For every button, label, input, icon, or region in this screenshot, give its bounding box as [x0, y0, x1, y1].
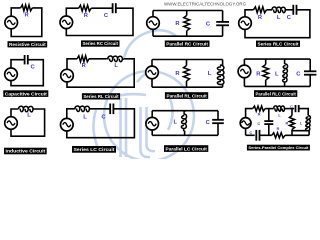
- label box Series LC Circuit: [72, 146, 116, 153]
- wire: [267, 9, 273, 11]
- AC source: [60, 16, 73, 29]
- wire: [11, 8, 20, 16]
- svg-text:Series-Parallel Complex Circui: Series-Parallel Complex Circuit: [248, 145, 309, 150]
- wire: [11, 60, 25, 68]
- bottom rail: [260, 134, 272, 136]
- svg-text:Series RC Circuit: Series RC Circuit: [82, 41, 118, 47]
- svg-text:Capacitive Circuit: Capacitive Circuit: [5, 91, 47, 97]
- AC source: [147, 17, 160, 30]
- wire: [66, 8, 133, 35]
- label box Inductive Circuit: [4, 148, 47, 155]
- AC source: [240, 118, 251, 129]
- bottom rail: [152, 86, 223, 88]
- wire: [66, 8, 78, 16]
- label box Resistive Circuit: [8, 41, 48, 47]
- wire: [308, 131, 310, 136]
- svg-text:WWW.ELECTRICALTECHNOLOGY.ORG: WWW.ELECTRICALTECHNOLOGY.ORG: [164, 1, 246, 7]
- wire: [89, 58, 106, 60]
- bottom rail: [244, 85, 310, 87]
- wire: [222, 11, 224, 22]
- wire: [151, 130, 153, 135]
- AC source: [61, 69, 74, 82]
- wire: [152, 11, 154, 17]
- wire: [90, 108, 110, 110]
- wire: [151, 111, 153, 118]
- wire: [265, 80, 267, 86]
- resistor R: [79, 5, 92, 11]
- label box Parallel RC Circuit: [165, 41, 210, 47]
- wire: [243, 78, 245, 87]
- wire: [222, 60, 224, 66]
- capacitor C4: [255, 130, 257, 141]
- wire: [151, 79, 153, 87]
- wire: [245, 10, 254, 17]
- inductor L1: [274, 106, 285, 111]
- inductor L2: [306, 116, 311, 131]
- svg-text:L: L: [114, 63, 118, 69]
- AC source: [61, 118, 74, 131]
- wire: [186, 31, 188, 36]
- wire: [285, 9, 293, 11]
- capacitor C: [24, 55, 26, 64]
- top rail: [152, 59, 223, 61]
- capacitor C3: [295, 105, 297, 112]
- inductor L: [19, 106, 33, 112]
- svg-text:C: C: [257, 121, 260, 126]
- wire: [67, 59, 134, 87]
- wire: [309, 59, 311, 71]
- svg-text:L: L: [275, 72, 279, 78]
- resistor R: [254, 7, 267, 13]
- svg-text:Resistive Circuit: Resistive Circuit: [9, 42, 46, 48]
- inductor L: [217, 65, 224, 85]
- label box Capacitive Circuit: [3, 90, 48, 97]
- capacitor C: [109, 104, 111, 115]
- capacitor C: [216, 21, 229, 23]
- resistor R: [263, 65, 269, 81]
- AC source: [239, 17, 252, 30]
- svg-text:L: L: [83, 114, 87, 120]
- svg-text:Parallel LC Circuit: Parallel LC Circuit: [166, 146, 208, 152]
- wire: [245, 128, 247, 135]
- wire: [11, 60, 43, 86]
- inductor L: [106, 56, 124, 62]
- wire: [268, 109, 270, 121]
- inductor L: [283, 64, 288, 82]
- svg-text:Inductive Circuit: Inductive Circuit: [6, 149, 46, 155]
- wire: [67, 59, 77, 70]
- wire: [292, 130, 309, 132]
- resistor R: [184, 66, 190, 82]
- label box Series RLC Circuit: [256, 41, 300, 47]
- svg-text:C: C: [290, 104, 293, 109]
- resistor R: [77, 56, 89, 62]
- wire: [299, 109, 309, 116]
- AC source: [5, 68, 18, 81]
- wire: [186, 60, 188, 66]
- svg-text:Parallel RC Circuit: Parallel RC Circuit: [166, 41, 208, 47]
- wire: [309, 75, 311, 87]
- svg-text:R: R: [277, 126, 280, 131]
- bottom rail: [246, 134, 255, 136]
- AC source: [238, 65, 251, 78]
- top rail: [244, 58, 310, 60]
- wire: [222, 85, 224, 88]
- wire: [268, 125, 270, 136]
- capacitor C: [304, 70, 316, 72]
- label box Series RL Circuit: [82, 93, 120, 99]
- svg-text:L: L: [208, 71, 212, 77]
- svg-text:C: C: [249, 130, 252, 135]
- wire: [11, 8, 42, 37]
- svg-text:Series RL Circuit: Series RL Circuit: [83, 94, 119, 100]
- capacitor C: [212, 119, 224, 121]
- wire: [186, 11, 188, 16]
- inductor L: [75, 106, 90, 112]
- resistor R: [21, 5, 33, 11]
- svg-text:Series RLC Circuit: Series RLC Circuit: [258, 41, 299, 47]
- capacitor C: [292, 5, 294, 15]
- AC source: [146, 117, 159, 130]
- bottom rail: [153, 35, 223, 37]
- wire: [184, 131, 186, 136]
- resistor R: [184, 16, 190, 31]
- svg-text:Parallel RL Circuit: Parallel RL Circuit: [166, 93, 207, 99]
- AC source: [146, 66, 159, 79]
- inductor L: [181, 112, 186, 130]
- wire: [291, 130, 293, 136]
- label box Parallel RL Circuit: [165, 92, 208, 99]
- wire: [217, 111, 219, 120]
- label box Parallel RLC Circuit: [254, 90, 297, 97]
- bottom rail: [285, 134, 309, 136]
- svg-text:L: L: [27, 113, 31, 119]
- wire: [285, 108, 295, 110]
- wire: [222, 25, 224, 36]
- wire: [67, 109, 75, 119]
- svg-text:Series LC Circuit: Series LC Circuit: [74, 147, 115, 153]
- wire: [246, 109, 253, 118]
- wire: [67, 109, 135, 138]
- label box Series RC Circuit: [81, 40, 120, 46]
- wire: [265, 59, 267, 64]
- wire: [91, 7, 112, 9]
- wire: [186, 81, 188, 87]
- AC source: [5, 16, 18, 29]
- capacitor C: [112, 3, 114, 13]
- resistor R1: [253, 106, 265, 111]
- wire: [11, 109, 45, 136]
- top rail: [153, 10, 223, 12]
- svg-text:Parallel RLC Circuit: Parallel RLC Circuit: [256, 91, 297, 97]
- wire: [291, 109, 293, 116]
- label box Series-Parallel Complex Circuit: [247, 145, 310, 151]
- watermark logo: [93, 30, 194, 161]
- bottom rail: [152, 134, 218, 136]
- wire: [284, 82, 286, 86]
- top rail: [152, 110, 218, 112]
- svg-text:L: L: [277, 15, 281, 21]
- wire: [265, 108, 274, 110]
- wire: [217, 123, 219, 135]
- wire: [151, 60, 153, 67]
- wire: [184, 111, 186, 112]
- inductor L: [272, 7, 285, 13]
- svg-text:L: L: [174, 119, 178, 125]
- resistor R3: [272, 133, 285, 138]
- wire: [11, 109, 19, 117]
- label box Parallel LC Circuit: [164, 145, 208, 152]
- wire: [284, 59, 286, 64]
- svg-text:R: R: [258, 111, 261, 116]
- wire: [245, 10, 310, 38]
- wire: [243, 59, 245, 65]
- wire: [152, 30, 154, 37]
- AC source: [5, 117, 18, 130]
- svg-text:R: R: [286, 121, 289, 126]
